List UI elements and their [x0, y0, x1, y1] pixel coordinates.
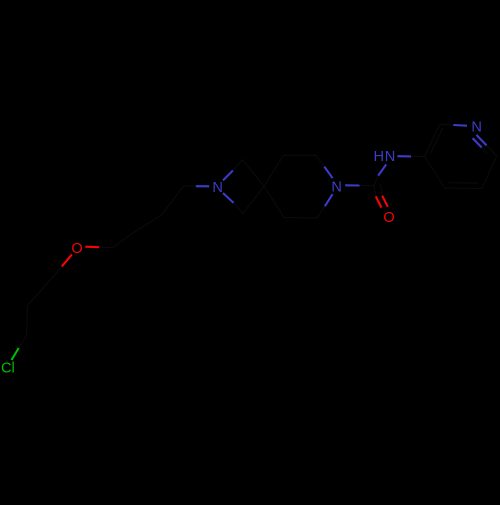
- wire N azetidine left blue half: [196, 185, 209, 187]
- svg-text:O: O: [71, 241, 82, 257]
- wire chain CH2-CH2 b: [132, 215, 162, 234]
- wire C carbonyl-NH carbon half: [374, 176, 378, 186]
- wire O ether to CH2 lower-left red half: [62, 254, 72, 266]
- wire Cl bond green half: [12, 348, 19, 360]
- wire chain CH2-CH2: [27, 306, 28, 336]
- piperidine ring carbon bonds top: [264, 155, 324, 186]
- pyridine C2-N carbon half: [440, 124, 454, 127]
- svg-text:N: N: [331, 179, 342, 195]
- wire chain CH2-CH2 c: [162, 186, 184, 215]
- svg-text:O: O: [383, 210, 394, 226]
- wire chain CH2-O carbon half: [52, 266, 62, 278]
- pyridine C4-C3 bond: [425, 157, 445, 188]
- pyridine C6-C5 bond: [482, 156, 497, 189]
- pyridine C3-C2 bond: [425, 125, 440, 157]
- wire pyridine N1=C6 blue inner: [473, 138, 482, 147]
- wire HN to pyridine blue half: [397, 155, 411, 157]
- wire chain Cl-C bond carbon half: [19, 336, 26, 348]
- azetidine ring carbon bonds: [233, 160, 264, 214]
- wire C=O red stroke B: [382, 196, 388, 207]
- wire N piperidine lower-left blue half: [325, 194, 333, 206]
- svg-text:Cl: Cl: [1, 361, 15, 377]
- wire N piperidine right blue half: [345, 184, 359, 186]
- wire chain CH2-CH2 a: [113, 234, 132, 248]
- wire NH-pyridine C3 carbon half: [411, 155, 425, 157]
- wire Npip-C carbonyl carbon half: [360, 185, 375, 187]
- C=O carbon halves: [374, 186, 376, 197]
- wire pyridine N1=C6 blue outer: [476, 135, 486, 146]
- svg-text:N: N: [471, 119, 482, 135]
- wire CH2-N carbon half: [184, 185, 197, 187]
- wire O-CH2 carbon half right: [99, 246, 113, 248]
- pyridine C5=C4 inner stroke: [449, 182, 479, 184]
- wire O ether to CH2 right red half: [85, 246, 99, 249]
- wire N azetidine upper-right blue half: [223, 171, 233, 181]
- wire N piperidine upper-left blue half: [324, 167, 332, 179]
- svg-text:HN: HN: [373, 149, 396, 165]
- wire pyridine C2-N1 blue half: [453, 124, 467, 127]
- pyridine C2=C3 inner stroke: [431, 128, 443, 154]
- svg-text:N: N: [212, 180, 223, 196]
- wire C=O red stroke A: [376, 196, 382, 207]
- piperidine ring carbon bonds bottom: [264, 186, 325, 218]
- wire chain CH2-CH2: [28, 278, 52, 305]
- pyridine N1=C6 carbon halves: [487, 145, 497, 156]
- wire N azetidine lower-right blue half: [223, 193, 234, 203]
- pyridine C5-C4 bond: [445, 187, 482, 190]
- wire HN to carbonyl blue half: [378, 164, 386, 175]
